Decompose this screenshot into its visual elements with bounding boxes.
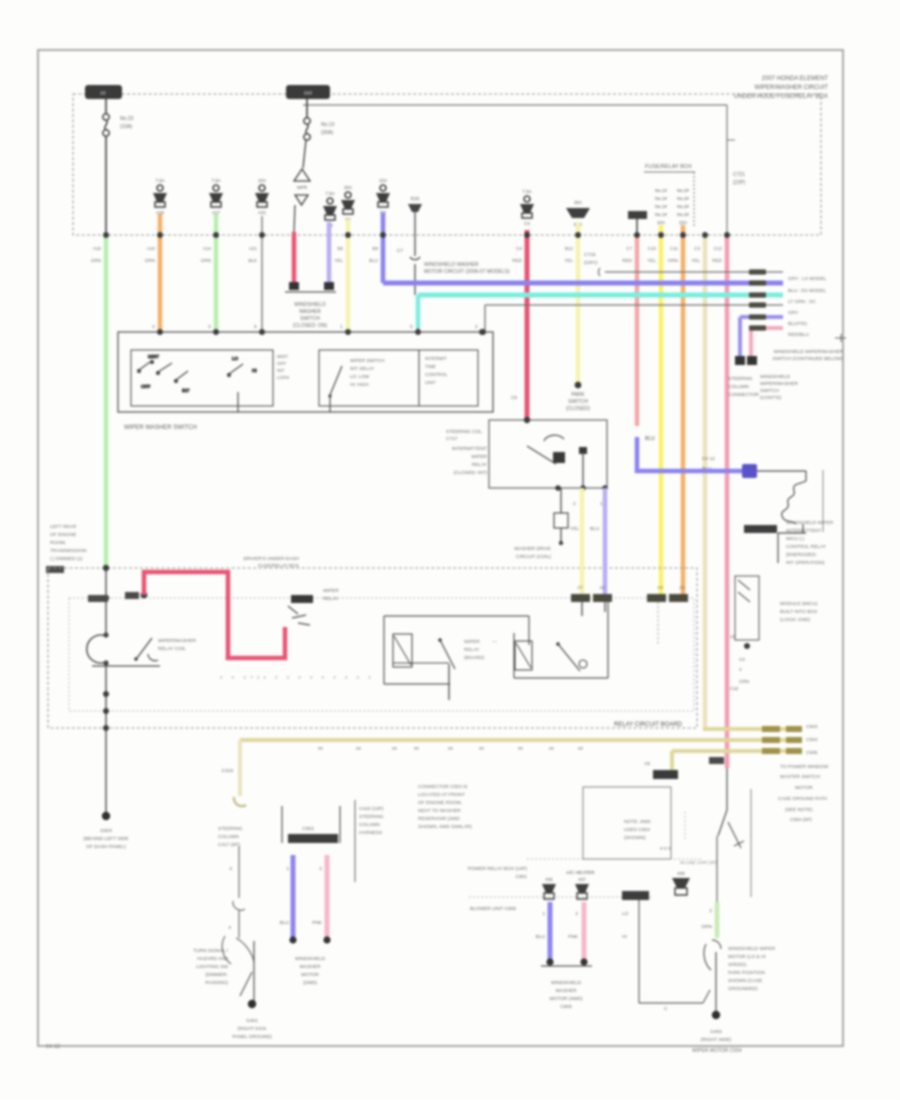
svg-text:C7: C7	[397, 248, 403, 254]
svg-text:No.1#: No.1#	[655, 204, 668, 209]
fuse table (two label columns)	[644, 172, 695, 228]
svg-text:RELAY COIL: RELAY COIL	[158, 646, 186, 652]
svg-text:54-12: 54-12	[46, 1044, 60, 1050]
svg-text:PARK POSITION: PARK POSITION	[728, 970, 765, 976]
relay notes	[786, 520, 834, 566]
fuse No.14 (wide)	[566, 200, 590, 227]
khaki end labels	[806, 724, 818, 756]
svg-text:PANEL GROUND): PANEL GROUND)	[232, 1034, 272, 1040]
wire LT GRN	[214, 214, 219, 332]
svg-text:30A: 30A	[574, 200, 582, 205]
wire PNK	[725, 235, 730, 768]
svg-text:STEERING COL.: STEERING COL.	[446, 429, 483, 435]
svg-text:LT GRN : SC: LT GRN : SC	[788, 299, 816, 305]
svg-text:WINDSHIELD WIPER/WASHER: WINDSHIELD WIPER/WASHER	[774, 349, 844, 355]
svg-text:4: 4	[152, 324, 155, 330]
svg-text:WIPER/WASHER: WIPER/WASHER	[158, 638, 196, 644]
rear washer motor label	[550, 980, 583, 1010]
svg-text:10A: 10A	[379, 178, 387, 183]
svg-text:YEL: YEL	[564, 258, 573, 263]
wire RED (intermittent relay feed)	[525, 230, 530, 419]
black stubs below terminals	[581, 602, 583, 616]
svg-text:WINDSHIELD: WINDSHIELD	[294, 302, 326, 308]
wire LT PNK (A/C)	[582, 902, 587, 962]
svg-text:C553: C553	[302, 826, 314, 832]
svg-text:HARNESS: HARNESS	[359, 830, 382, 836]
svg-text:4: 4	[228, 925, 231, 931]
svg-text:LO/HI: LO/HI	[277, 375, 289, 380]
svg-text:A21: A21	[249, 246, 258, 251]
pin labels	[570, 501, 603, 532]
terminal RED	[289, 282, 299, 290]
svg-text:(30A): (30A)	[321, 130, 334, 136]
inner stubs	[237, 392, 239, 412]
svg-text:FUSE/RELAY BOX: FUSE/RELAY BOX	[645, 164, 692, 170]
svg-text:1: 1	[340, 324, 343, 330]
wire continues to dashed bus	[105, 136, 107, 235]
svg-text:YEL: YEL	[647, 258, 656, 263]
svg-text:(BEHIND LEFT SIDE: (BEHIND LEFT SIDE	[83, 836, 128, 842]
connector bar (salmon feed)	[628, 211, 647, 237]
svg-text:MASTER SWITCH: MASTER SWITCH	[780, 774, 821, 780]
fuse No.1	[341, 185, 355, 222]
svg-text:C416: C416	[222, 768, 234, 774]
fuse (blue branch)	[542, 877, 556, 899]
svg-text:RELAY: RELAY	[323, 596, 339, 602]
column wire chain	[238, 846, 240, 898]
svg-text:HAZARD AND: HAZARD AND	[197, 956, 228, 962]
svg-text:No.2#: No.2#	[677, 188, 690, 193]
ground G402	[712, 1011, 720, 1019]
svg-text:C4: C4	[524, 221, 530, 226]
svg-text:STEERING: STEERING	[728, 376, 753, 382]
svg-text:SWITCH (CONTINUED BELOW): SWITCH (CONTINUED BELOW)	[772, 356, 843, 362]
svg-text:(CLOSED): (CLOSED)	[566, 406, 590, 412]
svg-text:WINDSHIELD: WINDSHIELD	[760, 374, 791, 380]
svg-text:A14: A14	[203, 246, 212, 251]
svg-text:###: ###	[304, 91, 313, 97]
svg-text:#30: #30	[677, 871, 685, 876]
svg-text:BLU : EX MODEL: BLU : EX MODEL	[788, 288, 826, 294]
svg-text:WINDSHIELD: WINDSHIELD	[295, 956, 326, 962]
svg-text:SWITCH: SWITCH	[300, 316, 320, 322]
bus BLU/YEL with bend	[735, 317, 783, 365]
svg-text:MOTOR: MOTOR	[795, 785, 813, 791]
svg-text:##: ##	[356, 746, 361, 751]
svg-text:CONNECTOR C553 IS: CONNECTOR C553 IS	[418, 784, 468, 790]
svg-text:#37: #37	[578, 877, 586, 882]
svg-text:No.1#: No.1#	[655, 196, 668, 201]
svg-text:No.1#: No.1#	[655, 188, 668, 193]
svg-text:G401: G401	[246, 1018, 258, 1024]
svg-text:SHOWN; 4WD SIMILAR): SHOWN; 4WD SIMILAR)	[418, 824, 472, 830]
svg-text:(LOGIC GND): (LOGIC GND)	[780, 617, 811, 623]
svg-text:RED: RED	[512, 258, 522, 263]
motor switch hook	[704, 944, 711, 970]
bus GRY (thin)	[605, 271, 783, 273]
svg-text:COLUMN: COLUMN	[218, 834, 239, 840]
svg-text:BLU: BLU	[536, 934, 546, 940]
svg-text:G402: G402	[710, 1029, 722, 1035]
svg-text:1: 1	[286, 866, 289, 872]
svg-text:MIST: MIST	[277, 354, 288, 359]
svg-text:C7: C7	[626, 246, 632, 251]
svg-text:C: C	[664, 1006, 668, 1012]
svg-text:NEXT TO WASHER: NEXT TO WASHER	[418, 808, 461, 814]
washer switch comp box	[735, 576, 759, 640]
svg-text:(.) DIMMED (1): (.) DIMMED (1)	[50, 556, 83, 562]
svg-text:GRY: GRY	[788, 310, 799, 316]
park switch label	[566, 392, 590, 412]
svg-text:2007 HONDA ELEMENT: 2007 HONDA ELEMENT	[762, 76, 829, 82]
labels near MICU link	[702, 456, 715, 472]
svg-text:ORN: ORN	[145, 258, 155, 263]
svg-text:COLUMN: COLUMN	[359, 822, 380, 828]
bus RED/BLU with bend	[747, 328, 783, 365]
bus GRN/CYN (thick)	[418, 293, 783, 298]
connector C2 (ignition feed)	[286, 85, 330, 99]
gold connector segments	[762, 726, 780, 732]
svg-text:MODULE (MICU): MODULE (MICU)	[780, 601, 818, 607]
dashes near A/C	[684, 812, 686, 840]
pink end label	[709, 757, 724, 764]
svg-text:6: 6	[254, 324, 257, 330]
svg-text:10A: 10A	[258, 178, 266, 183]
svg-text:(CLOSED: INT): (CLOSED: INT)	[454, 470, 488, 476]
svg-text:BLK: BLK	[248, 258, 258, 263]
fuse No.10	[209, 178, 223, 215]
svg-text:YEL: YEL	[691, 258, 700, 263]
wire RED/BLK (salmon)	[635, 237, 640, 426]
svg-text:COLUMN: COLUMN	[728, 384, 749, 390]
svg-text:BLU: BLU	[280, 920, 290, 926]
svg-text:7.5A: 7.5A	[522, 189, 531, 194]
wire PNK (washer motor)	[325, 855, 330, 940]
svg-text:GRN: GRN	[739, 679, 749, 684]
svg-text:A8: A8	[599, 585, 605, 590]
svg-text:3: 3	[208, 324, 211, 330]
svg-text:C# 12: C# 12	[702, 456, 715, 462]
svg-text:10A: 10A	[657, 220, 665, 225]
svg-text:CASE GROUND PATH: CASE GROUND PATH	[778, 796, 828, 802]
relay circuit board (dotted)	[69, 598, 694, 711]
park switch chain	[726, 768, 728, 810]
washer switch label	[293, 302, 328, 329]
center note block	[418, 784, 472, 830]
wire RED (relay board jumper)	[144, 572, 285, 658]
C416 pole	[354, 800, 356, 882]
svg-text:OF DASH PANEL): OF DASH PANEL)	[86, 844, 126, 850]
svg-text:(22P): (22P)	[733, 180, 746, 186]
svg-text:BLU: BLU	[590, 526, 600, 532]
svg-text:A10: A10	[147, 246, 156, 251]
svg-text:WASHER: WASHER	[300, 964, 321, 970]
svg-text:HI: HIGH: HI: HIGH	[350, 382, 369, 387]
wire LT YEL	[346, 219, 351, 332]
wire LT KHAKI	[703, 235, 708, 729]
svg-text:LO: LOW: LO: LOW	[350, 374, 370, 379]
washer motor connector box	[282, 806, 340, 843]
svg-text:CONTROL RELAY: CONTROL RELAY	[786, 544, 827, 550]
driver under-dash box (dashed)	[48, 568, 697, 728]
svg-text:WIPER/WASHER: WIPER/WASHER	[760, 381, 798, 387]
svg-text:TIME: TIME	[425, 364, 436, 369]
wiper relay (circuit board)	[384, 616, 529, 700]
washer switch joint line	[285, 291, 336, 293]
red jumper start node	[141, 592, 148, 599]
fuse symbol above box	[672, 871, 690, 895]
dashed trace below yellow terminal	[657, 602, 659, 645]
resistor label	[514, 546, 551, 560]
wire RED (to washer sw)	[292, 232, 297, 284]
wiper relay coil terminal	[291, 595, 313, 603]
wire from C1	[105, 99, 107, 113]
svg-text:WINDSHIELD: WINDSHIELD	[551, 980, 582, 986]
svg-text:(RIGHT KICK: (RIGHT KICK	[238, 1026, 268, 1032]
svg-text:INT: INT	[277, 368, 285, 373]
svg-text:RED: RED	[712, 258, 722, 263]
svg-text:YEL: YEL	[334, 258, 343, 263]
under-dash fuse/relay box outline	[303, 104, 727, 106]
wire LT BLU 2	[603, 488, 608, 596]
svg-text:(CONT'D): (CONT'D)	[760, 395, 782, 401]
svg-text:INTERMITTENT: INTERMITTENT	[786, 528, 821, 534]
connector tag on dashed line	[46, 566, 64, 573]
svg-text:C10: C10	[648, 246, 657, 251]
svg-text:GRN: GRN	[201, 258, 211, 263]
svg-text:A16: A16	[93, 246, 102, 251]
svg-text:IN-LINE C### (4P): IN-LINE C### (4P)	[680, 860, 717, 865]
khaki hook connector	[234, 797, 246, 806]
svg-text:5: 5	[410, 324, 413, 330]
svg-text:B6: B6	[337, 246, 343, 251]
svg-text:2: 2	[319, 866, 322, 872]
terminal bars on relay board edge	[571, 594, 590, 602]
steering column note	[218, 826, 243, 848]
wire BLU/WHT short	[327, 222, 332, 284]
svg-text:SWITCH: SWITCH	[760, 388, 779, 394]
C717 labels	[760, 374, 798, 401]
svg-text:10A: 10A	[679, 220, 687, 225]
terminal labels	[577, 585, 685, 590]
vertical service line	[750, 789, 752, 897]
svg-text:BLU: BLU	[369, 258, 378, 263]
svg-text:TRANSMISSION: TRANSMISSION	[50, 548, 87, 554]
svg-text:STEERING: STEERING	[359, 814, 384, 820]
left note block	[50, 524, 87, 562]
svg-text:TO POWER WINDOW: TO POWER WINDOW	[780, 764, 829, 770]
svg-text:##: ##	[448, 746, 453, 751]
svg-text:ROOM,: ROOM,	[50, 540, 66, 546]
svg-text:No.2#: No.2#	[677, 196, 690, 201]
svg-text:WASHER DRIVE: WASHER DRIVE	[514, 546, 551, 552]
switch positions text column	[277, 354, 289, 380]
wire GRN segment	[715, 902, 720, 938]
connector bar on box top	[622, 891, 649, 900]
washer relay (circuit board)	[514, 600, 608, 678]
wire BLU (washer motor)	[291, 855, 296, 940]
svg-text:INT: DELAY: INT: DELAY	[350, 366, 374, 371]
junction note box	[583, 787, 671, 859]
resistor drop	[560, 488, 562, 513]
svg-text:WIPER: WIPER	[464, 639, 480, 645]
diagram title block	[734, 76, 828, 100]
notes right	[780, 601, 818, 623]
svg-text:OF ENGINE ROOM,: OF ENGINE ROOM,	[418, 800, 462, 806]
svg-text:1: 1	[600, 501, 603, 507]
fuse (pink branch)	[575, 877, 589, 899]
svg-text:(2WD): (2WD)	[303, 980, 317, 986]
svg-text:No.1#: No.1#	[655, 212, 668, 217]
svg-text:OFF: OFF	[141, 384, 150, 389]
svg-text:7.5A: 7.5A	[325, 191, 334, 196]
green wire junction	[103, 565, 109, 571]
relay post	[579, 447, 587, 454]
svg-text:PASSING): PASSING)	[205, 980, 228, 986]
svg-text:POWER RELAY BOX (14P): POWER RELAY BOX (14P)	[468, 866, 528, 872]
fuse No.19	[520, 189, 534, 226]
fuse No.13 (vertical)	[304, 118, 335, 140]
relay label	[464, 639, 497, 661]
svg-text:INTERMITTENT: INTERMITTENT	[452, 446, 487, 452]
svg-text:G503: G503	[100, 828, 112, 834]
svg-text:C11: C11	[670, 246, 679, 251]
svg-text:TURN SIGNAL /: TURN SIGNAL /	[193, 948, 228, 954]
svg-text:GRN: GRN	[91, 258, 101, 263]
svg-text:LOCATED AT FRONT: LOCATED AT FRONT	[418, 792, 465, 798]
svg-text:NOTE: 4WD: NOTE: 4WD	[624, 819, 651, 825]
svg-text:4: 4	[739, 667, 742, 672]
khaki stub to terminal	[670, 751, 674, 770]
svg-text:(CLOSED: ON): (CLOSED: ON)	[293, 323, 328, 329]
svg-text:RELAY: RELAY	[464, 647, 480, 653]
junction dots on dashed bus	[103, 232, 109, 238]
svg-text:UNDER-HOOD FUSE/RELAY BOX: UNDER-HOOD FUSE/RELAY BOX	[734, 94, 828, 100]
svg-text:YEL: YEL	[570, 526, 579, 532]
svg-text:(SHOWN): (SHOWN)	[624, 835, 646, 841]
svg-text:BLOWER UNIT C805: BLOWER UNIT C805	[470, 906, 516, 912]
svg-text:##: ##	[414, 746, 419, 751]
svg-text:A/C HEATER: A/C HEATER	[566, 870, 595, 876]
svg-text:C12: C12	[714, 246, 723, 251]
svg-text:CONNECTOR: CONNECTOR	[728, 392, 759, 398]
terminal labels below squares	[728, 376, 759, 398]
pin texts along khaki bus	[318, 746, 583, 751]
wire BLK (thin)	[261, 216, 263, 332]
svg-text:DRIVER'S UNDER-DASH: DRIVER'S UNDER-DASH	[243, 556, 299, 562]
svg-text:(SEE NOTE): (SEE NOTE)	[785, 807, 813, 813]
ground terminal G503	[102, 812, 110, 820]
svg-text:C718: C718	[584, 252, 596, 258]
wire BLU vertical to bus	[381, 213, 386, 283]
svg-text:2: 2	[575, 911, 578, 917]
svg-text:C503: C503	[806, 724, 818, 730]
svg-text:2: 2	[709, 908, 712, 914]
switch contacts sub-box C	[419, 350, 478, 406]
svg-text:20A: 20A	[344, 185, 352, 190]
svg-text:(DIMMER-: (DIMMER-	[205, 972, 228, 978]
relay contact arc	[544, 435, 564, 441]
svg-text:7.5A: 7.5A	[155, 178, 164, 183]
common rail	[92, 665, 160, 667]
svg-text:WIPER: WIPER	[323, 588, 339, 594]
svg-text:(GRY): (GRY)	[584, 260, 598, 266]
svg-text:LEFT REAR: LEFT REAR	[50, 524, 77, 530]
svg-text:C3: C3	[694, 246, 700, 251]
svg-text:CONTROL: CONTROL	[425, 372, 448, 377]
connector C1 (battery feed)	[85, 85, 122, 99]
svg-text:WINDSHIELD WIPER: WINDSHIELD WIPER	[786, 520, 834, 526]
svg-text:1: 1	[542, 911, 545, 917]
svg-text:PNK: PNK	[568, 934, 579, 940]
svg-text:C901: C901	[516, 874, 528, 880]
khaki bus L2 (long)	[240, 738, 800, 742]
pin dots on box top	[157, 329, 163, 335]
connector symbol T4	[408, 196, 422, 212]
svg-text:SWITCH: SWITCH	[568, 399, 588, 405]
svg-text:(RIGHT SIDE): (RIGHT SIDE)	[701, 1037, 732, 1043]
svg-text:RED: RED	[622, 258, 632, 263]
svg-text:USES C554: USES C554	[624, 827, 650, 833]
svg-text:PNK: PNK	[312, 920, 323, 926]
svg-text:—: —	[492, 640, 497, 645]
relay contact squiggle	[782, 481, 806, 524]
fuse No.8	[255, 178, 269, 215]
wire YEL	[659, 225, 664, 596]
wire from E4 with inline connector	[414, 212, 416, 256]
svg-text:LO: LO	[622, 911, 629, 917]
svg-text:RESERVOIR (2WD: RESERVOIR (2WD	[418, 816, 460, 822]
svg-text:WIPER/WASHER CIRCUIT: WIPER/WASHER CIRCUIT	[755, 85, 829, 91]
svg-text:##: ##	[318, 746, 323, 751]
svg-text:C805: C805	[560, 1004, 572, 1010]
switch contacts sub-box A	[131, 350, 273, 406]
column switch note	[193, 948, 228, 986]
svg-text:INT: INT	[182, 388, 190, 393]
relay bottom pin dots	[555, 485, 561, 491]
right column notes	[778, 764, 829, 823]
svg-text:No.13: No.13	[321, 122, 335, 128]
svg-text:LO: LO	[232, 356, 239, 361]
fuse No.18	[153, 178, 167, 215]
svg-text:OFF: OFF	[277, 361, 286, 366]
connector C721 tick and label	[727, 139, 735, 141]
svg-text:LIGHTING SW: LIGHTING SW	[196, 964, 228, 970]
wire LT YEL (park feed)	[576, 222, 581, 383]
svg-text:(10A): (10A)	[120, 124, 133, 130]
comp box pin dot	[744, 643, 750, 649]
relay arm	[527, 446, 556, 464]
svg-text:No.2#: No.2#	[677, 212, 690, 217]
combination switch arcs	[222, 936, 231, 964]
wire from C2	[306, 99, 308, 117]
terminal BLU/WHT	[324, 282, 334, 290]
inline connector (blue)	[742, 464, 757, 478]
svg-text:ORN: ORN	[668, 258, 678, 263]
wire BLU jog	[637, 437, 742, 471]
svg-text:No.2#: No.2#	[677, 204, 690, 209]
svg-text:7.5A: 7.5A	[211, 178, 220, 183]
fuse No.22	[323, 191, 337, 228]
ground G401	[248, 1000, 256, 1008]
svg-text:WPR: WPR	[297, 185, 307, 190]
svg-text:UNIT: UNIT	[425, 380, 436, 385]
svg-text:A5: A5	[644, 761, 650, 767]
intermittent wiper relay box	[489, 420, 607, 488]
svg-text:RELAY: RELAY	[472, 462, 488, 468]
svg-text:WIPER SWITCH: WIPER SWITCH	[350, 358, 384, 363]
bus destination labels	[788, 276, 846, 342]
